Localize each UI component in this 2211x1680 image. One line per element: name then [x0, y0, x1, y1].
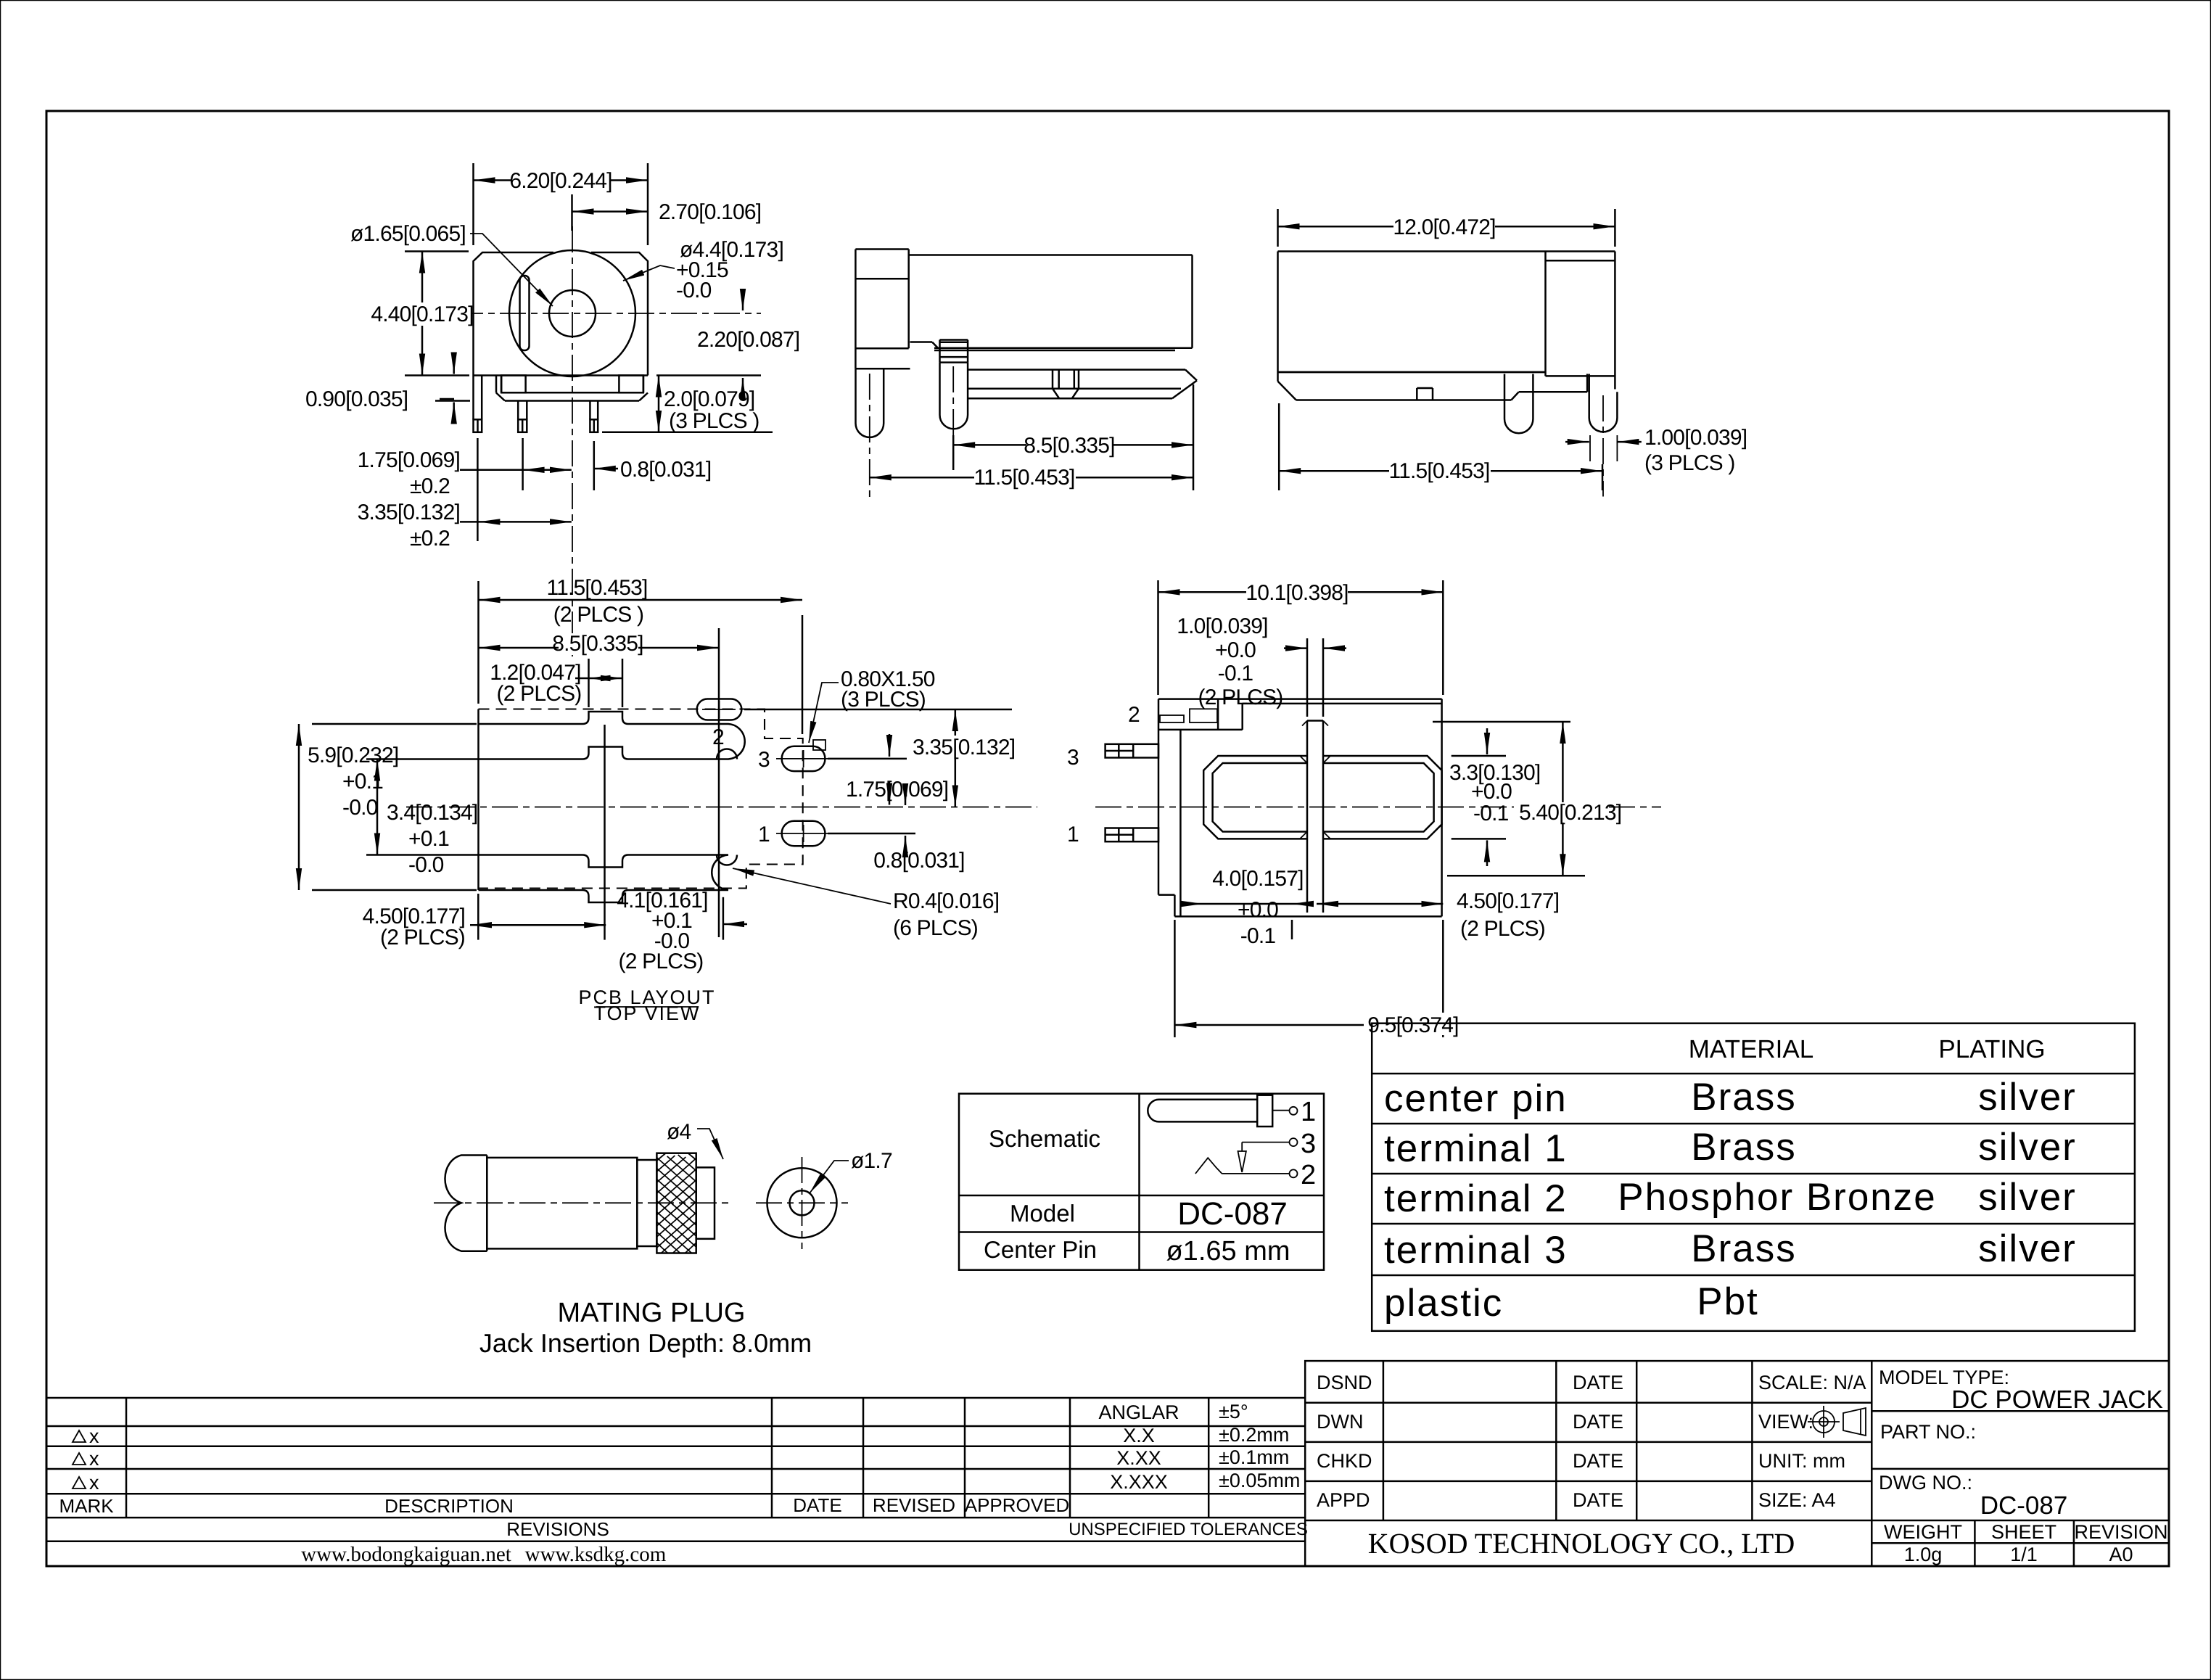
svg-text:0.8[0.031]: 0.8[0.031]	[873, 849, 964, 873]
body outline	[909, 254, 1193, 256]
svg-text:±0.05mm: ±0.05mm	[1219, 1470, 1300, 1491]
left pin	[1504, 374, 1533, 434]
svg-text:terminal 1: terminal 1	[1384, 1127, 1568, 1170]
svg-text:±5°: ±5°	[1219, 1401, 1248, 1422]
terminal 1 blade	[968, 368, 1185, 371]
lower slot bar	[479, 855, 729, 903]
svg-text:1: 1	[758, 823, 770, 847]
terminal 2 block	[1158, 729, 1243, 731]
svg-text:DSND: DSND	[1317, 1372, 1372, 1393]
svg-text:1/1: 1/1	[2010, 1544, 2038, 1565]
svg-text:-0.0: -0.0	[342, 796, 378, 820]
svg-text:±0.1mm: ±0.1mm	[1219, 1446, 1289, 1468]
svg-text:DATE: DATE	[1573, 1411, 1623, 1433]
svg-text:DATE: DATE	[793, 1494, 841, 1516]
svg-text:REVISIONS: REVISIONS	[506, 1518, 609, 1540]
svg-text:0.8[0.031]: 0.8[0.031]	[620, 458, 711, 482]
plug collar	[637, 1160, 656, 1246]
svg-text:±0.2: ±0.2	[410, 527, 450, 551]
dim 6.20[0.244]	[474, 163, 649, 245]
svg-text:12.0[0.472]: 12.0[0.472]	[1393, 215, 1495, 239]
svg-text:APPD: APPD	[1317, 1489, 1370, 1511]
revisions table row lines	[46, 1397, 1305, 1399]
svg-text:silver: silver	[1978, 1126, 2077, 1169]
delta-x mark row3	[73, 1477, 86, 1488]
plug tip	[696, 1167, 715, 1238]
WEIGHT SHEET REVISION cells	[1974, 1520, 1976, 1566]
svg-text:silver: silver	[1978, 1176, 2077, 1219]
svg-text:Brass: Brass	[1691, 1126, 1796, 1169]
svg-text:1: 1	[1067, 823, 1079, 847]
svg-text:DC-087: DC-087	[1980, 1491, 2068, 1520]
svg-text:-0.0: -0.0	[408, 853, 444, 877]
svg-text:SCALE: N/A: SCALE: N/A	[1758, 1372, 1866, 1393]
svg-text:3.35[0.132]: 3.35[0.132]	[913, 736, 1015, 759]
schematic switch contact arrow	[1241, 1142, 1243, 1151]
base channel lines	[495, 376, 498, 393]
material table frame	[1372, 1024, 2135, 1331]
right edge	[1441, 699, 1443, 917]
svg-text:+0.0: +0.0	[1238, 898, 1278, 922]
svg-text:1.75[0.069]: 1.75[0.069]	[846, 778, 948, 802]
svg-text:UNIT: mm: UNIT: mm	[1758, 1450, 1845, 1472]
svg-text:11.5[0.453]: 11.5[0.453]	[1388, 459, 1489, 483]
svg-text:3: 3	[1067, 746, 1079, 770]
svg-text:DATE: DATE	[1573, 1450, 1623, 1472]
svg-text:ø1.65[0.065]: ø1.65[0.065]	[350, 222, 466, 246]
right base notch	[619, 376, 643, 393]
svg-text:2: 2	[1128, 703, 1140, 727]
MODEL TYPE cell	[1872, 1410, 2169, 1412]
svg-text:9.5[0.374]: 9.5[0.374]	[1367, 1013, 1458, 1037]
svg-text:DESCRIPTION: DESCRIPTION	[384, 1495, 514, 1517]
svg-text:0.90[0.035]: 0.90[0.035]	[305, 387, 408, 411]
front view body outline	[474, 252, 554, 376]
flange edge	[1179, 730, 1182, 917]
svg-text:X.XXX: X.XXX	[1110, 1471, 1168, 1493]
dim 10.1[0.398]	[1158, 580, 1444, 695]
svg-text:4.40[0.173]: 4.40[0.173]	[371, 302, 473, 326]
upper slot bar	[479, 712, 745, 759]
svg-text:VIEW:: VIEW:	[1758, 1411, 1813, 1433]
left mounting pin	[472, 376, 474, 420]
svg-text:MATING PLUG: MATING PLUG	[558, 1298, 746, 1328]
svg-text:silver: silver	[1978, 1076, 2077, 1119]
plug handle	[445, 1156, 487, 1251]
dim 5.40[0.213]	[1433, 722, 1608, 876]
svg-text:+0.0: +0.0	[1215, 638, 1256, 662]
svg-text:PART NO.:: PART NO.:	[1880, 1421, 1976, 1443]
svg-text:8.5[0.335]: 8.5[0.335]	[552, 632, 643, 656]
svg-text:-0.1: -0.1	[1473, 802, 1509, 825]
svg-text:±0.2mm: ±0.2mm	[1219, 1424, 1289, 1446]
svg-text:(2 PLCS): (2 PLCS)	[380, 926, 465, 950]
plug barrel	[487, 1158, 637, 1249]
svg-text:DATE: DATE	[1573, 1372, 1623, 1393]
svg-text:1.75[0.069]: 1.75[0.069]	[358, 448, 460, 472]
dim 3.35[0.132] pcb	[744, 709, 1012, 807]
dim 1.75[0.069] pcb	[828, 734, 907, 805]
dim 8.5[0.335] pcb	[479, 628, 720, 937]
pad 1	[782, 821, 825, 846]
svg-text:Pbt: Pbt	[1697, 1280, 1759, 1323]
plug knurl	[656, 1153, 696, 1253]
slot punch mark 0.80x1.50	[813, 740, 825, 750]
schematic symbol: sleeve contact	[1257, 1095, 1272, 1127]
body outline	[1278, 250, 1615, 252]
barrel circle (ø4.4)	[509, 250, 635, 376]
svg-text:x: x	[89, 1448, 99, 1470]
svg-text:terminal 2: terminal 2	[1384, 1177, 1568, 1220]
svg-text:Brass: Brass	[1691, 1076, 1796, 1119]
svg-text:8.5[0.335]: 8.5[0.335]	[1024, 434, 1114, 458]
svg-text:X.X: X.X	[1123, 1425, 1155, 1446]
bottom edge	[1174, 915, 1441, 918]
dim 11.5[0.453] (2 PLCS)	[479, 581, 803, 734]
svg-text:3.4[0.134]: 3.4[0.134]	[387, 801, 477, 825]
middle pin	[517, 401, 519, 420]
svg-text:PLATING: PLATING	[1938, 1035, 2045, 1063]
svg-text:2.70[0.106]: 2.70[0.106]	[659, 200, 761, 224]
svg-text:(2 PLCS): (2 PLCS)	[619, 950, 704, 973]
svg-text:Brass: Brass	[1691, 1227, 1796, 1270]
base bottom rim	[505, 400, 639, 402]
svg-text:+0.1: +0.1	[408, 827, 449, 851]
svg-text:REVISED: REVISED	[873, 1494, 955, 1516]
svg-text:KOSOD TECHNOLOGY CO., LTD: KOSOD TECHNOLOGY CO., LTD	[1368, 1527, 1795, 1560]
svg-text:R0.4[0.016]: R0.4[0.016]	[893, 889, 999, 913]
left edge	[477, 709, 479, 891]
base chamfers	[496, 393, 505, 401]
skirt notch	[1416, 388, 1418, 400]
schematic table frame	[959, 1094, 1324, 1270]
terminal 2 column	[939, 340, 941, 363]
svg-text:x: x	[89, 1472, 99, 1494]
base skirt	[1278, 371, 1547, 374]
svg-text:REVISION: REVISION	[2074, 1521, 2167, 1543]
notch under body	[910, 341, 933, 343]
svg-text:SHEET: SHEET	[1991, 1521, 2056, 1543]
svg-text:11.5[0.453]: 11.5[0.453]	[973, 466, 1074, 490]
svg-text:terminal 3: terminal 3	[1384, 1229, 1568, 1272]
svg-text:center pin: center pin	[1384, 1077, 1568, 1120]
svg-text:10.1[0.398]: 10.1[0.398]	[1246, 581, 1348, 605]
svg-text:Center Pin: Center Pin	[984, 1236, 1097, 1263]
dim 12.0[0.472]	[1278, 209, 1615, 247]
svg-text:2.20[0.087]: 2.20[0.087]	[697, 328, 799, 352]
dim 8.5[0.335]	[953, 384, 1193, 490]
svg-text:Phosphor Bronze: Phosphor Bronze	[1618, 1176, 1937, 1219]
svg-text:ø4: ø4	[667, 1120, 691, 1144]
center slot	[1306, 721, 1309, 913]
plug centerline	[434, 1202, 733, 1203]
svg-text:6.20[0.244]: 6.20[0.244]	[509, 169, 612, 193]
svg-text:x: x	[89, 1425, 99, 1447]
delta-x mark row2	[73, 1453, 86, 1465]
svg-text:(2 PLCS): (2 PLCS)	[1460, 917, 1545, 941]
barrel outer chamfered outline	[1203, 756, 1307, 839]
dim 11.5[0.453]	[870, 466, 1193, 499]
svg-text:WEIGHT: WEIGHT	[1884, 1521, 1962, 1543]
column lines	[1383, 1361, 1385, 1520]
svg-text:(3 PLCS ): (3 PLCS )	[669, 409, 759, 433]
svg-text:A0: A0	[2109, 1544, 2133, 1565]
svg-text:4.50[0.177]: 4.50[0.177]	[1457, 889, 1559, 913]
svg-text:(3 PLCS): (3 PLCS)	[841, 688, 926, 712]
svg-text:SIZE: A4: SIZE: A4	[1758, 1489, 1836, 1511]
mark column divider	[125, 1398, 128, 1518]
PART NO cell	[1872, 1468, 2169, 1470]
svg-text:MATERIAL: MATERIAL	[1689, 1035, 1813, 1063]
title block frame	[1305, 1361, 2169, 1566]
svg-text:DC POWER JACK: DC POWER JACK	[1951, 1385, 2163, 1414]
svg-text:CHKD: CHKD	[1317, 1450, 1372, 1472]
svg-text:ø1.65 mm: ø1.65 mm	[1166, 1236, 1290, 1267]
contact slot inside barrel	[520, 276, 530, 350]
dim 4.40[0.173]	[330, 252, 472, 376]
svg-text:1.0[0.039]: 1.0[0.039]	[1177, 614, 1267, 638]
svg-text:APPROVED: APPROVED	[965, 1494, 1070, 1516]
svg-text:Schematic: Schematic	[989, 1125, 1100, 1152]
svg-text:UNSPECIFIED TOLERANCES: UNSPECIFIED TOLERANCES	[1069, 1520, 1308, 1539]
dim 4.1[0.161] +0.1 -0.0 (2 PLCS)	[722, 897, 747, 940]
terminal 1 tab	[1105, 828, 1158, 842]
dim 9.5[0.374]	[1174, 1013, 1462, 1035]
description/date/revised/approved dividers	[771, 1398, 773, 1518]
svg-text:(2 PLCS): (2 PLCS)	[497, 682, 582, 706]
terminal 2 pin with round tip	[940, 363, 968, 429]
base mid line	[526, 392, 619, 394]
svg-text:DC-087: DC-087	[1177, 1196, 1288, 1232]
right pin	[1589, 374, 1618, 432]
flange outline	[855, 250, 857, 369]
dim 0.8[0.031] pcb	[828, 785, 915, 856]
svg-text:2.0[0.079]: 2.0[0.079]	[664, 387, 754, 411]
vertical centerline	[572, 226, 573, 656]
svg-text:ANGLAR: ANGLAR	[1098, 1401, 1179, 1423]
svg-text:silver: silver	[1978, 1227, 2077, 1270]
svg-text:2: 2	[1301, 1160, 1316, 1190]
dim 3.4[0.134] +0.1 -0.0	[366, 759, 479, 855]
row lines left part	[1305, 1402, 1872, 1404]
upper bar end bump R0.4	[717, 749, 737, 759]
svg-text:5.40[0.213]: 5.40[0.213]	[1519, 801, 1621, 825]
horizontal centerline	[457, 313, 761, 314]
right pin	[589, 401, 591, 420]
svg-text:±0.2: ±0.2	[410, 474, 450, 498]
tolerance column dividers	[1208, 1398, 1210, 1518]
svg-text:(2 PLCS ): (2 PLCS )	[553, 603, 644, 627]
center pin hole (ø1.65)	[549, 290, 596, 337]
left edge with step	[1158, 699, 1160, 895]
svg-text:www.ksdkg.com: www.ksdkg.com	[525, 1543, 667, 1566]
blade notch	[1052, 370, 1054, 389]
dim 2.70[0.106]	[572, 194, 649, 231]
svg-text:DWG NO.:: DWG NO.:	[1879, 1472, 1972, 1494]
schematic symbol: plug body	[1148, 1100, 1257, 1122]
svg-text:-0.0: -0.0	[676, 279, 712, 302]
svg-text:TOP VIEW: TOP VIEW	[593, 1002, 700, 1024]
left pin with round tip	[856, 368, 884, 437]
svg-text:+0.0: +0.0	[1471, 780, 1512, 804]
schematic pin 1	[1272, 1110, 1290, 1111]
svg-text:Jack Insertion Depth: 8.0mm: Jack Insertion Depth: 8.0mm	[479, 1328, 812, 1358]
pad 3	[782, 746, 825, 771]
svg-text:X.XX: X.XX	[1116, 1447, 1161, 1469]
dim 11.5[0.453] bottom	[1279, 403, 1602, 490]
svg-text:MARK: MARK	[59, 1495, 114, 1517]
pcb centerline	[406, 807, 1037, 808]
svg-text:DATE: DATE	[1573, 1489, 1623, 1511]
schematic pin 2	[1222, 1173, 1290, 1174]
terminal 3 tab	[1105, 744, 1158, 758]
svg-text:4.0[0.157]: 4.0[0.157]	[1212, 867, 1303, 891]
dim 1.00[0.039] (3 PLCS)	[1565, 441, 1642, 443]
component dashed outline	[479, 709, 803, 889]
svg-text:(6 PLCS): (6 PLCS)	[893, 916, 978, 940]
svg-text:3: 3	[758, 748, 770, 772]
svg-text:(2 PLCS): (2 PLCS)	[1198, 685, 1283, 709]
svg-text:5.9[0.232]: 5.9[0.232]	[308, 744, 398, 767]
svg-text:-0.1: -0.1	[1218, 662, 1253, 685]
svg-text:11.5[0.453]: 11.5[0.453]	[546, 576, 647, 600]
svg-text:3: 3	[1301, 1129, 1316, 1159]
svg-text:1: 1	[1301, 1097, 1316, 1127]
svg-text:-0.1: -0.1	[1240, 924, 1276, 948]
plug end circles	[767, 1168, 837, 1238]
svg-text:www.bodongkaiguan.net: www.bodongkaiguan.net	[301, 1543, 511, 1566]
svg-text:3.35[0.132]: 3.35[0.132]	[358, 501, 460, 524]
svg-text:plastic: plastic	[1384, 1282, 1503, 1325]
dim 3.3[0.130] +0.0 -0.1	[1452, 728, 1506, 866]
pad 2	[697, 699, 742, 720]
barrel inner chamfered outline	[1213, 763, 1307, 832]
svg-text:ø1.7: ø1.7	[851, 1149, 892, 1173]
top edge	[1158, 698, 1442, 700]
dim 5.9[0.232] +0.1 -0.0	[299, 724, 477, 890]
svg-text:(3 PLCS ): (3 PLCS )	[1644, 451, 1735, 475]
svg-text:DWN: DWN	[1317, 1411, 1363, 1433]
schematic spring contact zigzag	[1195, 1158, 1222, 1174]
left base notch	[501, 376, 525, 393]
delta-x mark row1	[73, 1430, 86, 1442]
svg-text:1.0g: 1.0g	[1904, 1544, 1943, 1565]
svg-text:Model: Model	[1010, 1200, 1075, 1227]
schematic pin 3	[1242, 1142, 1289, 1143]
view5 centerline	[1095, 807, 1661, 808]
lower bar end bump R0.4	[717, 855, 737, 865]
svg-text:1.00[0.039]: 1.00[0.039]	[1644, 426, 1747, 450]
